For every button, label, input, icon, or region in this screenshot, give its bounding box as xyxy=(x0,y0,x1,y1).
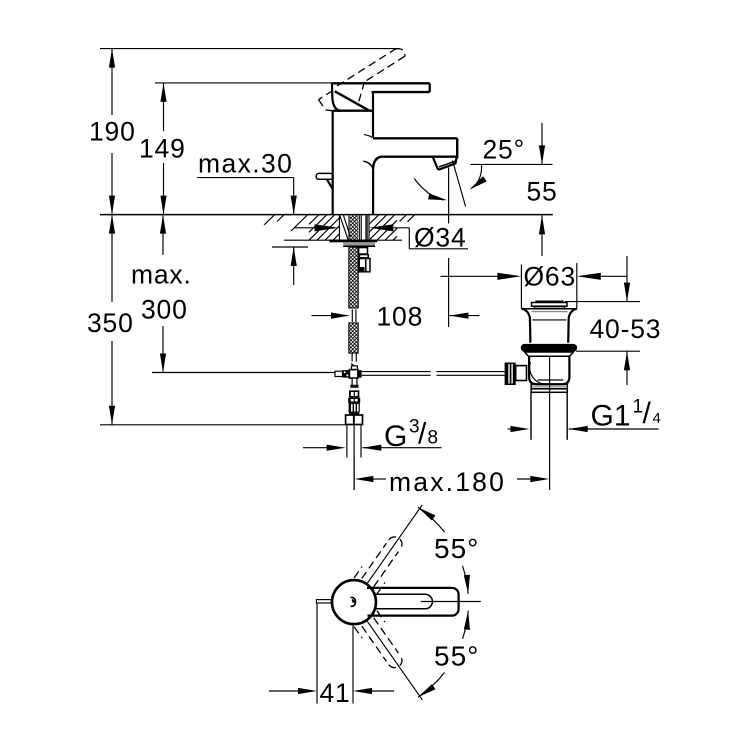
svg-text:max.180: max.180 xyxy=(389,467,506,497)
deck hatching left block xyxy=(264,215,339,240)
axis line down xyxy=(367,620,423,700)
svg-text:Ø63: Ø63 xyxy=(524,261,577,291)
valve side knob xyxy=(505,363,527,386)
svg-text:25°: 25° xyxy=(483,135,525,165)
25-degree spray angle xyxy=(414,135,552,328)
svg-text:8: 8 xyxy=(428,428,439,449)
GROHE logo mark xyxy=(351,597,356,606)
dimension 55 (spout height) xyxy=(527,123,558,256)
svg-text:max.30: max.30 xyxy=(198,149,293,179)
svg-text:40-53: 40-53 xyxy=(590,314,662,344)
svg-text:/: / xyxy=(643,397,652,430)
svg-text:G: G xyxy=(384,420,407,453)
label G 3/8 xyxy=(303,417,442,454)
dashed raised lever xyxy=(319,49,405,112)
extension line top (raised lever top level) xyxy=(100,48,400,50)
valve bottom flange xyxy=(531,384,567,392)
plan handle slot xyxy=(375,594,433,609)
svg-text:149: 149 xyxy=(139,134,186,164)
valve bell xyxy=(521,309,577,343)
dimension max.180 xyxy=(354,455,549,497)
pop-up rod lever xyxy=(316,173,333,189)
drain tailpipe xyxy=(531,356,567,455)
O-ring seal xyxy=(521,344,577,352)
spout xyxy=(363,138,457,214)
svg-text:190: 190 xyxy=(89,117,136,147)
label G1 1/4 xyxy=(508,397,661,433)
plan spout stub xyxy=(316,600,331,603)
svg-text:41: 41 xyxy=(320,678,351,708)
shank in deck hole xyxy=(339,215,369,240)
axis line up xyxy=(367,505,423,585)
pop-up rod horizontal xyxy=(362,372,505,376)
svg-text:1: 1 xyxy=(633,397,644,418)
svg-text:55: 55 xyxy=(527,177,558,207)
non-return valve T-fitting xyxy=(335,366,362,387)
svg-text:Ø34: Ø34 xyxy=(414,223,467,253)
mounting flange and washer xyxy=(329,240,377,247)
svg-text:/: / xyxy=(418,418,427,451)
arc arrow upper 55 xyxy=(416,505,471,594)
body circle xyxy=(332,580,376,624)
svg-text:108: 108 xyxy=(377,302,424,332)
dimension 40-53 xyxy=(565,256,661,385)
flexible hose lower segment xyxy=(349,323,358,353)
flexible hose upper segment xyxy=(349,247,358,308)
hose end ferrule xyxy=(351,353,356,365)
handle centreline xyxy=(421,601,481,603)
deck / mounting surface xyxy=(100,215,553,241)
dimension 190 xyxy=(89,49,136,215)
G3/8 connection fitting xyxy=(348,390,360,415)
dashed handle rotated up 55 xyxy=(354,537,402,594)
pop-up rod connector stub xyxy=(359,248,370,272)
svg-text:4: 4 xyxy=(653,410,661,427)
svg-text:55°: 55° xyxy=(434,533,479,564)
dimension max.300 xyxy=(131,215,192,373)
svg-text:300: 300 xyxy=(141,295,188,325)
deck hatching right block xyxy=(369,215,415,240)
dimension 350 xyxy=(87,215,134,425)
plan handle xyxy=(367,588,459,616)
svg-text:G1: G1 xyxy=(591,400,631,433)
hose break xyxy=(352,310,356,323)
valve body upper flange xyxy=(525,352,574,356)
level line 350 bottom xyxy=(100,424,346,426)
G3/8 hex nut xyxy=(346,415,363,425)
faucet body column xyxy=(333,92,373,214)
dimension diameter 63 xyxy=(441,261,628,308)
dimension diameter 34 xyxy=(294,223,468,253)
faucet lever (handle) xyxy=(332,83,430,110)
dimension 149 xyxy=(139,83,186,215)
extension line handle top level xyxy=(155,82,333,84)
G3/8 threaded tail xyxy=(347,425,361,490)
valve cap xyxy=(532,302,568,309)
svg-text:max.: max. xyxy=(131,260,192,290)
arc arrow lower 55 xyxy=(416,610,471,699)
dashed handle rotated down 55 xyxy=(354,611,402,668)
dimension 41 xyxy=(269,603,394,708)
svg-text:55°: 55° xyxy=(434,641,479,672)
dimension max.30 xyxy=(197,149,308,286)
svg-text:350: 350 xyxy=(87,308,134,338)
dimension 108 xyxy=(312,302,480,332)
level line max300 hose connection xyxy=(152,372,335,374)
aerator / mousseur xyxy=(433,157,457,169)
valve body xyxy=(529,356,569,384)
